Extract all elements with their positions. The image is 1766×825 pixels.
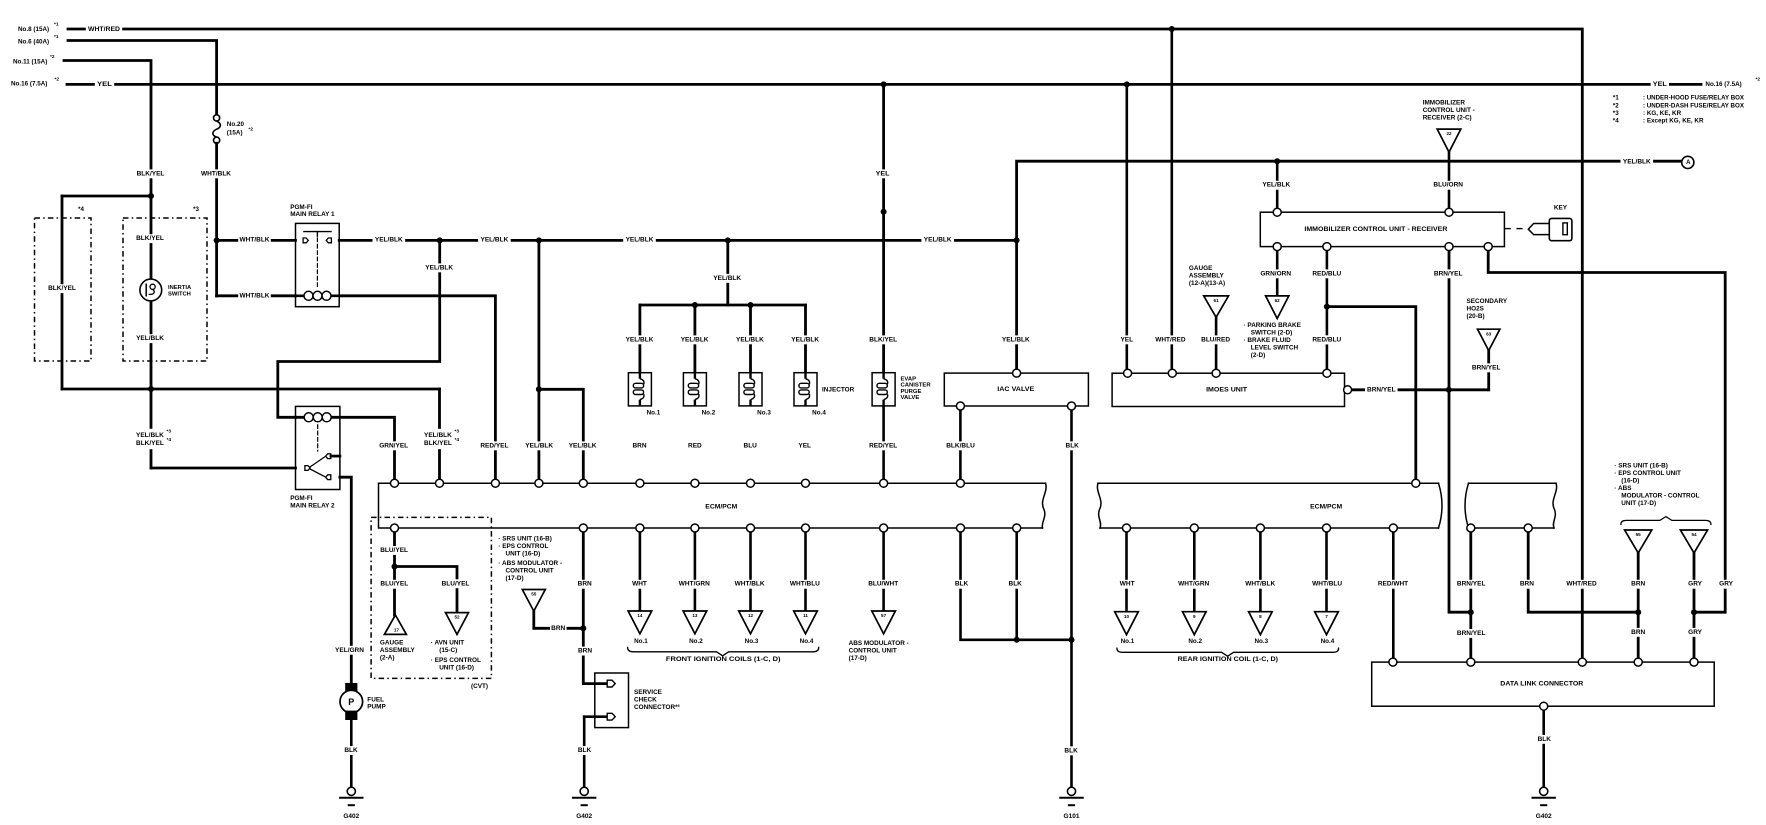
label BLK/YEL in box3 [134, 234, 167, 243]
svg-text:9: 9 [1193, 614, 1196, 619]
svg-text:*1: *1 [54, 34, 59, 40]
relay2 coil [304, 413, 313, 422]
svg-text:17: 17 [394, 628, 400, 633]
ECM1 top pin x=439.5 [436, 479, 444, 487]
relay2 arm to lower contact [310, 469, 325, 477]
relay1 contact left [303, 238, 308, 243]
label YEL/BLK bus 2 [478, 236, 511, 245]
svg-text:WHT/GRN: WHT/GRN [1178, 581, 1209, 588]
wire RED/BLU immobilizer to IMOES [1326, 247, 1329, 374]
svg-text:GRY: GRY [1688, 629, 1703, 636]
svg-text:No.16 (7.5A): No.16 (7.5A) [11, 81, 47, 88]
ECM2 bottom pin x=1126.5 [1123, 524, 1131, 532]
svg-text:YEL/GRN: YEL/GRN [335, 647, 364, 654]
immobilizer top pin x=1449 [1445, 208, 1453, 216]
ECM/PCM box 2 bottom edge [1100, 527, 1554, 529]
label BLK e2 [1007, 580, 1024, 589]
wire BLK DLC to ground [1542, 706, 1545, 787]
junction YEL/BLK bus IAC [1014, 237, 1020, 243]
svg-text:BLU/ORN: BLU/ORN [1433, 182, 1463, 189]
svg-text:RECEIVER (2-C): RECEIVER (2-C) [1423, 115, 1472, 122]
label BLU/ORN [1432, 181, 1465, 190]
ECM1 bottom pin x=805.5 [802, 524, 810, 532]
svg-text:YEL/BLK: YEL/BLK [425, 264, 453, 271]
ECM2 top pin RED/BLU [1412, 479, 1420, 487]
svg-text:BLU/RED: BLU/RED [1201, 336, 1230, 343]
label WHT/BLU f4 [789, 580, 822, 589]
svg-text:YEL/BLK: YEL/BLK [136, 432, 164, 439]
immobilizer bottom pin x=1277.2 [1273, 243, 1281, 251]
ECM/PCM box 2 top edge [1098, 482, 1556, 484]
ground G402 service check [580, 787, 588, 795]
ECM2 bottom pin x=1194.3 [1190, 524, 1198, 532]
label WHT/GRN r2 [1177, 580, 1210, 589]
wire front ignition coil No.2 [694, 528, 697, 611]
svg-text:BRN/YEL: BRN/YEL [1457, 630, 1486, 637]
wire YEL/BLK branch to ECM B [538, 240, 541, 483]
svg-text:UNIT (16-D): UNIT (16-D) [506, 550, 541, 557]
svg-text:IAC VALVE: IAC VALVE [997, 386, 1035, 393]
wire front ignition coil No.3 [749, 528, 752, 611]
relay1 internal dashed link [316, 238, 318, 287]
label BRN ecm2 [1519, 580, 1536, 589]
svg-text:(15A): (15A) [227, 130, 243, 137]
svg-text:WHT/BLU: WHT/BLU [790, 581, 820, 588]
svg-text:No.8 (15A): No.8 (15A) [18, 26, 49, 33]
brace rear ignition coils [1117, 648, 1339, 656]
wire YEL right stub to No.16 label [1669, 83, 1701, 86]
label BRN/YEL ho2s [1470, 363, 1503, 372]
svg-text:BLU/YEL: BLU/YEL [380, 581, 408, 588]
svg-text:*2: *2 [50, 54, 55, 60]
label YEL imoes [1119, 335, 1136, 344]
wire BRN/YEL up to triangle 63 [1487, 351, 1490, 390]
svg-text:CONTROL UNIT -: CONTROL UNIT - [1423, 107, 1475, 114]
key symbol [1504, 228, 1510, 230]
label YEL/BLK b mid [523, 441, 556, 450]
wire YEL/BLK branch to ECM C [539, 389, 583, 483]
ECM/PCM box 2 break left [1439, 483, 1443, 528]
label WHT/BLK f3 [733, 580, 766, 589]
connector triangle 54 GRY DLC [1680, 530, 1707, 553]
svg-text:YEL: YEL [798, 442, 811, 449]
svg-text:YEL/BLK: YEL/BLK [569, 442, 597, 449]
svg-text:ECM/PCM: ECM/PCM [1310, 503, 1343, 510]
svg-text:No.2: No.2 [689, 638, 703, 645]
service check connector box [595, 673, 629, 728]
label RED inj mid [687, 441, 704, 450]
svg-text:7: 7 [1325, 614, 1328, 619]
svg-text:WHT/BLK: WHT/BLK [201, 170, 231, 177]
ECM1 bottom pin x=583.3 [579, 524, 587, 532]
relay2 internal dashed link [317, 425, 319, 451]
label YEL/BLK*3 BLK/YEL*4 left [134, 429, 168, 449]
svg-text:*3: *3 [167, 429, 172, 435]
IMOES top pin x=1172.3 [1168, 369, 1176, 377]
brace front ignition coils [628, 647, 819, 655]
svg-text:INERTIA: INERTIA [168, 285, 192, 291]
svg-text:BLK: BLK [1066, 442, 1080, 449]
svg-text:GRN/YEL: GRN/YEL [379, 442, 408, 449]
label WHT/BLU r4 [1311, 580, 1344, 589]
svg-text:BLK/YEL: BLK/YEL [48, 285, 76, 292]
wire BLK IAC to ground G101 [1070, 406, 1073, 787]
junction RED/BLU branch [1324, 304, 1330, 310]
svg-text:YEL: YEL [876, 170, 890, 177]
junction injector rail A [692, 302, 698, 308]
svg-text:No.6 (40A): No.6 (40A) [18, 38, 49, 45]
svg-text:*3: *3 [193, 206, 199, 213]
svg-text:BLK/YEL: BLK/YEL [137, 170, 165, 177]
immobilizer bottom pin x=1488.2 [1484, 243, 1492, 251]
junction BLK splice B [1069, 637, 1075, 643]
svg-text:YEL/BLK: YEL/BLK [681, 336, 709, 343]
label BRN/YEL immob [1432, 269, 1465, 278]
label YEL/BLK*3 BLK/YEL*4 mid [422, 429, 456, 449]
svg-text:ABS MODULATOR -: ABS MODULATOR - [849, 640, 909, 647]
wire BRN ECM to service check connector [583, 528, 607, 684]
ECM1 top pin x=583.3 [579, 479, 587, 487]
connector triangle 7 rear coil No.4 [1315, 612, 1339, 635]
svg-text:: UNDER-HOOD FUSE/RELAY BOX: : UNDER-HOOD FUSE/RELAY BOX [1643, 95, 1745, 102]
junction BLK splice A [1014, 637, 1020, 643]
junction YEL/BLK bus C [725, 237, 731, 243]
svg-text:WHT/BLK: WHT/BLK [240, 236, 270, 243]
IAC valve box [944, 373, 1088, 406]
label YEL/BLK iac [1000, 335, 1033, 344]
fuel pump [345, 683, 357, 693]
svg-text:WHT/RED: WHT/RED [1566, 581, 1597, 588]
svg-text:22: 22 [1446, 131, 1452, 136]
label RED/BLU imoes [1311, 335, 1344, 344]
immobilizer bottom pin x=1449 [1445, 243, 1453, 251]
connector triangle 11 front coil No.4 [794, 611, 818, 634]
wire fuse No.11 feed BLK/YEL [64, 61, 151, 469]
wire YEL/BLK to ECM pin A [438, 389, 441, 483]
svg-text:*3: *3 [455, 429, 460, 435]
IMOES unit box [1112, 373, 1344, 406]
svg-text:YEL: YEL [97, 81, 112, 88]
svg-text:SECONDARY: SECONDARY [1467, 298, 1508, 305]
label YEL/BLK immob [1260, 181, 1293, 190]
wire rear ignition coil No.3 [1259, 528, 1262, 612]
svg-text:No.20: No.20 [227, 121, 245, 128]
svg-text:BLK: BLK [955, 581, 969, 588]
label BLK/BLU iac mid [944, 441, 977, 450]
wire RED/YEL relay1 coil to ECM [340, 296, 496, 483]
wire YEL/BLK branch to relay2 coil [278, 240, 440, 417]
wire BRN/YEL ECM to DLC [1469, 528, 1472, 662]
relay2 contact lower [326, 475, 331, 480]
label YEL/BLK inj3 [734, 335, 767, 344]
wire YEL fuse No.16 bus [67, 83, 1650, 86]
svg-text:*4: *4 [167, 437, 172, 443]
relay2 arm to upper contact [310, 457, 325, 467]
junction YEL drop [881, 81, 887, 87]
label BLU/YEL upper [378, 546, 411, 555]
wire GRN/ORN to parking brake triangle [1276, 247, 1279, 296]
svg-text:GAUGE: GAUGE [380, 640, 404, 647]
svg-text:62: 62 [1275, 298, 1281, 303]
svg-text:: KG, KE, KR: : KG, KE, KR [1643, 110, 1682, 117]
svg-text:YEL/BLK: YEL/BLK [525, 442, 553, 449]
junction YEL/BLK bus A [437, 237, 443, 243]
label BLU/RED imoes [1199, 335, 1232, 344]
label BLU/YEL a [378, 580, 411, 589]
DLC top pin x=1470.8 [1467, 658, 1475, 666]
svg-text:YEL/BLK: YEL/BLK [791, 336, 819, 343]
ECM/PCM box 2 wavy left edge [1097, 483, 1101, 528]
svg-text:BLU/WHT: BLU/WHT [868, 581, 898, 588]
svg-text:*2: *2 [249, 127, 254, 133]
immobilizer bottom pin x=1326.9 [1323, 243, 1331, 251]
wire BRN/YEL IMOES to HO2S [1352, 388, 1489, 391]
label YEL/BLK bus 1 [373, 236, 406, 245]
svg-text:No.3: No.3 [745, 638, 759, 645]
DLC top pin x=1392.9 [1389, 658, 1397, 666]
label YEL/BLK down C [711, 274, 744, 283]
IMOES top pin x=1127.6 [1124, 369, 1132, 377]
relay2 upper contact stub [331, 455, 340, 457]
svg-text:ASSEMBLY: ASSEMBLY [1189, 273, 1225, 280]
svg-text:(17-D): (17-D) [849, 655, 867, 662]
ECM1 bottom pin x=960.5 [957, 524, 965, 532]
injector No.3 [739, 373, 762, 406]
svg-text:(20-B): (20-B) [1467, 313, 1485, 320]
svg-text:CHECK: CHECK [634, 696, 657, 703]
svg-text:*2: *2 [55, 77, 60, 83]
wire relay2 NC contact stub [331, 455, 340, 458]
label BLU/YEL avn [439, 579, 472, 588]
svg-text:BRN: BRN [578, 581, 592, 588]
relay U1 PGM-FI MAIN RELAY 1 box [296, 223, 340, 306]
svg-text:YEL/BLK: YEL/BLK [480, 236, 508, 243]
svg-text:CONNECTOR*³: CONNECTOR*³ [634, 704, 680, 711]
wire BLK/YEL left loop [61, 196, 64, 389]
ECM2 bottom pin x=1326.5 [1323, 524, 1331, 532]
svg-text:(12-A)(13-A): (12-A)(13-A) [1189, 280, 1225, 287]
label RED/YEL a mid [478, 441, 511, 450]
connector triangle 13 front coil No.2 [683, 611, 707, 634]
ECM/PCM box 1 wavy edge [1042, 483, 1046, 528]
label BLK iacg [1063, 746, 1080, 755]
label RED/BLU upper [1311, 269, 1344, 278]
ECM/PCM box 2 wavy right edge [1553, 483, 1557, 528]
junction BRN DLC [1635, 609, 1641, 615]
label WHT/BLK relay1 coil [238, 291, 271, 300]
svg-text:YEL/BLK: YEL/BLK [1262, 182, 1290, 189]
wire YEL to IMOES unit [1126, 84, 1129, 373]
junction WHT/BLK relay1 [214, 237, 220, 243]
label BLK svc [576, 746, 593, 755]
IAC bottom pin BLK [1068, 402, 1076, 410]
svg-text:· EPS CONTROL UNIT: · EPS CONTROL UNIT [1614, 470, 1681, 477]
svg-text:BLK/YEL: BLK/YEL [136, 235, 164, 242]
inertia switch [140, 279, 162, 301]
service check connector pin 1 [607, 680, 615, 687]
wire YEL/BLK bottom distribution [62, 388, 440, 391]
svg-text:BLK/YEL: BLK/YEL [424, 440, 452, 447]
svg-text:PGM-FI: PGM-FI [290, 204, 313, 211]
svg-text:· BRAKE FLUID: · BRAKE FLUID [1244, 337, 1292, 344]
ECM1 bottom pin x=1016.7 [1013, 524, 1021, 532]
label RED/BLU lower [1311, 335, 1344, 344]
ECM2 bottom pin x=1470.8 [1467, 524, 1475, 532]
label YEL top right [1651, 80, 1669, 89]
EVAP canister purge valve symbol [872, 373, 895, 406]
wire front ignition coil No.4 [804, 528, 807, 611]
wire GRN/YEL relay2 coil to ECM [296, 417, 395, 483]
brace SRS/EPS/ABS units [1621, 517, 1711, 525]
wire GRY triangle54 to DLC [1693, 553, 1696, 662]
svg-text:FUEL: FUEL [367, 696, 384, 703]
svg-text:WHT: WHT [1120, 581, 1135, 588]
svg-text:BLK: BLK [1064, 747, 1078, 754]
svg-text:· ABS MODULATOR -: · ABS MODULATOR - [498, 560, 562, 567]
wire YEL/BLK main bus [339, 239, 1016, 242]
svg-text:YEL/BLK: YEL/BLK [1002, 336, 1030, 343]
wire BLK/YEL branch left [62, 195, 151, 198]
svg-text:*4: *4 [78, 206, 84, 213]
svg-text:YEL/BLK: YEL/BLK [1623, 159, 1651, 166]
dash-dot box *4 variant [35, 218, 92, 361]
svg-text:WHT: WHT [632, 581, 647, 588]
junction injector rail B [748, 302, 754, 308]
relay1 armature tick [316, 232, 318, 237]
label BLK fuelpump [343, 746, 360, 755]
svg-text:RED/WHT: RED/WHT [1378, 581, 1408, 588]
connector triangle 12 front coil No.3 [739, 611, 763, 634]
wire BRN/YEL immobilizer down [1449, 247, 1471, 613]
svg-text:A: A [1686, 160, 1691, 166]
ECM1 bottom pin x=394.5 [391, 524, 399, 532]
wire BLK ECM pin to splice [961, 528, 1072, 640]
svg-text:CANISTER: CANISTER [901, 383, 932, 389]
connector triangle 17 gauge assembly [384, 615, 406, 634]
svg-text:IMMOBILIZER: IMMOBILIZER [1423, 100, 1466, 107]
label RED/YEL evap mid [867, 441, 900, 450]
svg-text:WHT/RED: WHT/RED [88, 26, 120, 33]
svg-text:No.1: No.1 [1121, 638, 1135, 645]
svg-text:*2: *2 [1613, 102, 1619, 109]
wire front ignition coil No.1 [639, 528, 642, 611]
connector triangle 63 secondary HO2S [1478, 329, 1500, 350]
wire BLU/YEL branch to AVN [395, 567, 458, 613]
wire service check pin2 stub [584, 715, 607, 718]
svg-text:YEL/BLK: YEL/BLK [375, 236, 403, 243]
wire BLK fuel pump to ground [350, 720, 353, 788]
label YEL/BLK in box3 [134, 334, 167, 343]
label YEL/BLK offpage [1621, 158, 1654, 167]
ECM2 bottom pin x=1260.4 [1256, 524, 1264, 532]
svg-text:PUMP: PUMP [367, 704, 386, 711]
label WHT/GRN f2 [678, 580, 711, 589]
label YEL/BLK inj2 [678, 335, 711, 344]
relay1 armature bar [304, 231, 331, 233]
svg-text:DATA LINK CONNECTOR: DATA LINK CONNECTOR [1500, 681, 1583, 688]
svg-text:BLK: BLK [1538, 736, 1552, 743]
svg-text:CONTROL UNIT: CONTROL UNIT [849, 647, 897, 654]
svg-text:GRY: GRY [1719, 581, 1734, 588]
connector triangle 57 ABS modulator [872, 611, 896, 634]
svg-text:*1: *1 [54, 22, 59, 28]
label BLK/YEL left loop [46, 284, 79, 293]
svg-text:ECM/PCM: ECM/PCM [705, 503, 738, 510]
DLC top pin x=1582.3 [1578, 658, 1586, 666]
svg-text:IMMOBILIZER CONTROL UNIT - REC: IMMOBILIZER CONTROL UNIT - RECEIVER [1304, 226, 1447, 233]
ECM/PCM box 1 [379, 483, 1046, 528]
svg-text:(2-D): (2-D) [1251, 352, 1266, 359]
svg-text:BRN: BRN [1631, 581, 1645, 588]
ECM1 top pin x=805.5 [802, 479, 810, 487]
svg-text:GAUGE: GAUGE [1189, 265, 1213, 272]
label BRN svc [577, 580, 594, 589]
IMOES top pin x=1326.9 [1323, 369, 1331, 377]
label WHT/BLK upper [200, 169, 233, 178]
svg-text:YEL/BLK: YEL/BLK [924, 236, 952, 243]
wire injector supply rail [640, 304, 806, 307]
svg-text:55: 55 [1636, 532, 1642, 537]
svg-text:BRN: BRN [1631, 629, 1645, 636]
svg-text:BLK/BLU: BLK/BLU [946, 442, 975, 449]
DLC bottom pin BLK [1540, 702, 1548, 710]
svg-text:No.3: No.3 [1254, 638, 1268, 645]
relay2 contact upper [326, 454, 331, 459]
IMOES right pin BRN/YEL [1344, 386, 1352, 394]
label BRN inline t55 [550, 624, 567, 633]
connector triangle 55 service BRN [522, 590, 545, 612]
svg-text:PURGE: PURGE [901, 389, 922, 395]
svg-text:G101: G101 [1064, 813, 1080, 820]
svg-text:52: 52 [454, 615, 460, 620]
svg-text:BLU/YEL: BLU/YEL [442, 580, 470, 587]
ECM1 top pin x=694.9 [691, 479, 699, 487]
junction BLU/YEL branch [392, 564, 398, 570]
label BRN t55 lower [1630, 628, 1647, 637]
svg-text:P: P [348, 697, 354, 707]
label YEL/BLK inj4 [789, 335, 822, 344]
connector triangle 55 BRN DLC [1625, 530, 1652, 553]
svg-text:SWITCH (2-D): SWITCH (2-D) [1251, 330, 1293, 337]
immobilizer control unit - receiver box [1260, 212, 1504, 246]
label WHT r1 [1119, 580, 1136, 589]
wire fuse No.6 feed to fuse No.20 [68, 41, 217, 116]
label YEL inj mid [797, 441, 814, 450]
svg-text:BRN: BRN [632, 442, 646, 449]
svg-text:10: 10 [1124, 614, 1130, 619]
svg-text:· AVN UNIT: · AVN UNIT [431, 640, 464, 647]
wire YEL/GRN relay2 to fuel pump [340, 477, 351, 683]
svg-text:· EPS CONTROL: · EPS CONTROL [431, 657, 481, 664]
label BLU inj mid [742, 441, 759, 450]
svg-text:No.2: No.2 [1188, 638, 1202, 645]
svg-text:YEL: YEL [1120, 336, 1133, 343]
IAC top pin [1013, 369, 1021, 377]
svg-text:: Except KG, KE, KR: : Except KG, KE, KR [1643, 118, 1704, 125]
svg-text:IMOES UNIT: IMOES UNIT [1206, 387, 1247, 394]
junction GRY DLC [1691, 609, 1697, 615]
svg-text:REAR IGNITION COIL (1-C, D): REAR IGNITION COIL (1-C, D) [1178, 656, 1278, 663]
label YEL/GRN [333, 646, 366, 655]
wire WHT/RED to IMOES unit [1171, 29, 1174, 373]
svg-text:WHT/RED: WHT/RED [1155, 336, 1186, 343]
label WHT f1 [631, 580, 648, 589]
ECM2 bottom pin x=1393.3 [1389, 524, 1397, 532]
svg-text:55: 55 [531, 592, 537, 597]
svg-text:PGM-FI: PGM-FI [290, 495, 313, 502]
label BLK/YEL evap [867, 335, 900, 344]
svg-text:13: 13 [692, 613, 698, 618]
